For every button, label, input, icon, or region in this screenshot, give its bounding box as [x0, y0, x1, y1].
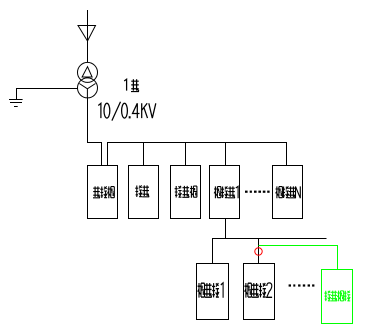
- label: 馈线柜1: [214, 186, 238, 198]
- wire: drop to compensation cabinet: [185, 143, 187, 166]
- wire: tap to terminal box (green): [259, 246, 338, 270]
- box: terminal distribution box (green): [322, 270, 353, 324]
- wire: riser from incoming cabinet + LV bus: [108, 143, 287, 166]
- label: 计量: [135, 185, 149, 197]
- ground: [9, 100, 23, 107]
- distribution bus + drop to box 1: [213, 239, 327, 264]
- cabinet: 补偿柜: [171, 166, 201, 219]
- wire: incoming HV feeder: [87, 10, 89, 63]
- cabinet: 进线柜: [88, 166, 118, 219]
- transformer T1 secondary winding (wye): [78, 78, 98, 98]
- label: 配电箱2: [245, 283, 273, 298]
- junction circle (red): [255, 248, 262, 255]
- transformer T1 primary winding (delta): [78, 62, 98, 82]
- wire: drop to distribution box 2: [258, 239, 260, 264]
- ellipsis between feeder cabinets: [245, 191, 270, 193]
- wire: feeder cabinet 1 down to distribution bus: [225, 219, 227, 239]
- label: terminal box (green): [324, 291, 350, 302]
- label: 补偿柜: [175, 186, 197, 198]
- wire: LV feeder from transformer to incoming cabinet: [88, 98, 102, 166]
- label: 10/0.4KV: [98, 102, 156, 121]
- cabinet: 馈线柜N: [273, 166, 303, 219]
- ellipsis between distribution boxes: [289, 284, 315, 286]
- cabinet: 计量柜: [129, 166, 159, 219]
- wire: drop to metering cabinet: [143, 143, 145, 166]
- box: 配电箱1: [197, 264, 229, 320]
- in-feed arrow: [78, 26, 96, 42]
- cabinet: 馈线柜1: [210, 166, 240, 219]
- label: 配电箱1: [198, 283, 224, 298]
- label: 进线柜: [93, 186, 114, 198]
- wire: neutral to ground: [17, 89, 78, 100]
- label: 馈线柜N: [276, 186, 301, 198]
- label: 1变 (transformer name): [124, 79, 139, 91]
- wire: drop to feeder cabinet 1: [225, 143, 227, 166]
- box: 配电箱2: [244, 264, 275, 320]
